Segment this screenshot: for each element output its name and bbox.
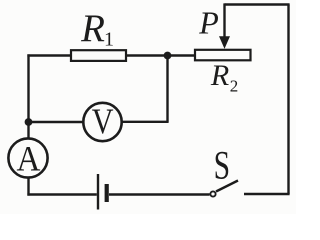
wire: right vertical rail — [287, 5, 289, 195]
wire: bottom-left from battery to ammeter branch — [27, 193, 96, 195]
wire: vertical from voltmeter lead up to junction — [166, 56, 168, 122]
wire: ammeter bottom stub — [27, 178, 29, 196]
svg-text:R: R — [80, 7, 105, 50]
wire: bottom-right from rail to switch — [244, 193, 290, 195]
wiper arrow P of rheostat R2 — [219, 3, 230, 48]
junction node (left, ammeter/voltmeter) — [25, 118, 33, 126]
wire: voltmeter right lead — [121, 121, 169, 123]
battery (cell): short thick plate — [105, 184, 109, 202]
svg-text:P: P — [198, 4, 219, 40]
svg-text:2: 2 — [230, 77, 239, 96]
battery (cell): long thin plate — [97, 174, 99, 210]
svg-text:V: V — [92, 103, 114, 142]
ammeter A — [8, 138, 47, 177]
wire: bottom between switch and battery — [109, 193, 210, 195]
wire: R1 to R2 — [126, 54, 195, 56]
svg-text:S: S — [214, 142, 230, 188]
svg-text:R: R — [210, 59, 229, 92]
svg-text:1: 1 — [104, 29, 114, 51]
switch S — [210, 181, 238, 197]
resistor R1 — [71, 50, 126, 61]
svg-text:A: A — [17, 139, 41, 179]
rheostat R2 — [195, 50, 251, 61]
wire: top-left horizontal from corner to R1 — [27, 54, 71, 56]
voltmeter V — [83, 103, 121, 141]
junction node (top, R1/R2/voltmeter) — [164, 52, 172, 60]
wire: top-right horizontal from wiper to right rail — [225, 3, 290, 5]
wire: left vertical from top corner down to ammeter — [27, 54, 29, 137]
wire: voltmeter left lead — [29, 121, 85, 123]
